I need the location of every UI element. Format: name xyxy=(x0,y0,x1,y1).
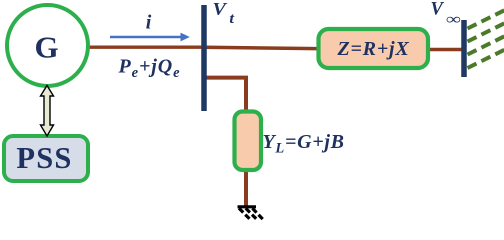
svg-text:G: G xyxy=(34,30,58,65)
svg-text:∞: ∞ xyxy=(446,11,461,27)
infinite bus hatching xyxy=(468,10,504,69)
wire from generator to bus Vt xyxy=(88,46,204,49)
svg-text:Pe+jQe: Pe+jQe xyxy=(118,56,181,82)
bus bar Vt xyxy=(201,5,207,111)
wire from Z box to infinite bus xyxy=(430,48,464,52)
load YL box xyxy=(235,112,262,171)
current arrow i xyxy=(110,36,183,38)
wire from bus Vt to Z box xyxy=(204,47,317,48)
impedance Z box xyxy=(319,29,429,68)
wire from YL box down to ground xyxy=(244,171,248,206)
svg-text:V: V xyxy=(431,0,445,20)
svg-text:Z=R+jX: Z=R+jX xyxy=(336,38,409,60)
svg-text:YL=G+jB: YL=G+jB xyxy=(263,131,345,157)
infinite bus bar xyxy=(461,20,467,77)
wire from bus Vt down-right to load YL xyxy=(206,78,246,110)
ground xyxy=(238,207,263,220)
svg-text:Vt: Vt xyxy=(213,0,235,27)
double arrow between G and PSS xyxy=(41,86,54,137)
generator G circle xyxy=(7,5,88,86)
svg-text:i: i xyxy=(146,12,152,34)
svg-text:PSS: PSS xyxy=(16,141,72,175)
PSS box xyxy=(4,136,88,181)
